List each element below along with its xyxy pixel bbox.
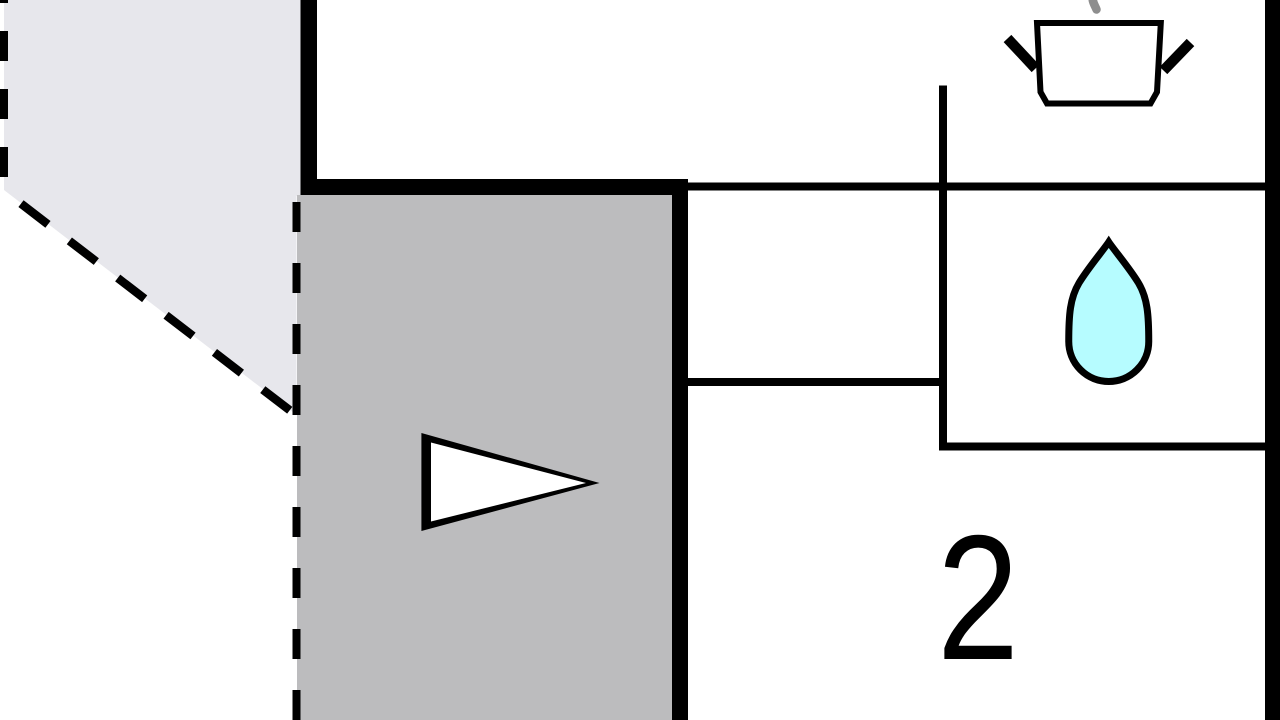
wall W3 (thick vertical, right of gray room) <box>672 179 688 720</box>
wall W1 (thick vertical, top-left room) <box>301 0 318 195</box>
wall W5 (thin vertical, x=943) <box>939 86 947 451</box>
wall W6 (thin horizontal, room divider y=382) <box>688 378 943 386</box>
triangle arrow (white inner) <box>431 443 586 522</box>
room number 2 <box>937 498 1019 697</box>
svg-text:2: 2 <box>937 498 1019 697</box>
kitchen pot icon: left handle <box>1008 39 1036 69</box>
wall W7 (bathroom bottom wall y=446) <box>939 443 1265 451</box>
gray room (veranda) fill <box>297 195 673 720</box>
kitchen pot icon: right handle <box>1164 43 1191 71</box>
water drop (bathroom) <box>1069 242 1149 382</box>
kitchen pot icon: steam wisp <box>1093 0 1097 10</box>
dashed boundary: diagonal <box>0 188 297 416</box>
terrace area (light gray polygon, top-left) <box>4 0 301 415</box>
wall W4 (thin horizontal, y=186) <box>688 183 1265 191</box>
wall W8 (right edge wall) <box>1265 0 1280 720</box>
dashed boundary: vertical at x=296.5 <box>293 202 301 720</box>
triangle arrow (black outline) in gray room <box>421 433 599 531</box>
kitchen pot icon: body <box>1037 23 1161 104</box>
dashed boundary: left edge <box>0 0 8 188</box>
wall W2 (thick horizontal above gray room) <box>301 179 689 195</box>
